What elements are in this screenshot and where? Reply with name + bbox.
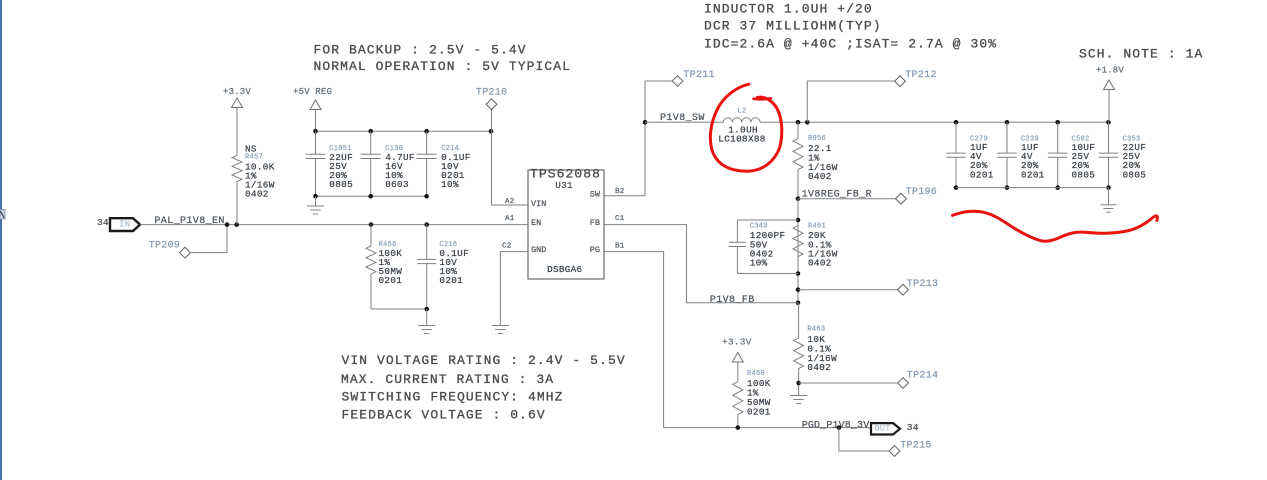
svg-text:INDUCTOR 1.0UH +/20: INDUCTOR 1.0UH +/20 — [704, 1, 873, 16]
svg-text:A2: A2 — [505, 198, 514, 206]
svg-text:B1: B1 — [615, 243, 625, 251]
svg-text:34: 34 — [97, 217, 109, 228]
svg-text:SW: SW — [590, 190, 601, 200]
svg-text:VIN: VIN — [531, 199, 546, 209]
svg-text:P1V8_FB: P1V8_FB — [710, 295, 755, 306]
svg-text:10%: 10% — [441, 179, 459, 190]
svg-text:TP196: TP196 — [906, 187, 938, 198]
svg-text:PG: PG — [590, 245, 600, 255]
svg-text:1V8REG_FB_R: 1V8REG_FB_R — [802, 189, 872, 200]
svg-text:TP209: TP209 — [149, 240, 181, 251]
svg-text:TP214: TP214 — [907, 370, 939, 381]
svg-text:0805: 0805 — [1123, 169, 1147, 180]
svg-text:GND: GND — [531, 245, 546, 255]
svg-text:B2: B2 — [615, 188, 624, 196]
svg-text:DSBGA6: DSBGA6 — [547, 264, 582, 275]
svg-text:SWITCHING FREQUENCY: 4MHZ: SWITCHING FREQUENCY: 4MHZ — [342, 389, 564, 404]
svg-text:0603: 0603 — [385, 179, 409, 190]
svg-text:C2: C2 — [502, 243, 511, 251]
svg-text:0805: 0805 — [329, 179, 353, 190]
svg-text:0402: 0402 — [245, 189, 269, 200]
svg-text:FOR BACKUP : 2.5V - 5.4V: FOR BACKUP : 2.5V - 5.4V — [314, 42, 527, 57]
svg-text:+3.3V: +3.3V — [722, 337, 752, 348]
svg-text:DCR 37 MILLIOHM(TYP): DCR 37 MILLIOHM(TYP) — [704, 18, 882, 33]
svg-text:U31: U31 — [555, 180, 573, 191]
svg-text:C1: C1 — [615, 215, 625, 223]
svg-text:0201: 0201 — [970, 169, 994, 180]
svg-text:0805: 0805 — [1072, 169, 1096, 180]
svg-text:0402: 0402 — [807, 362, 831, 373]
svg-text:+5V REG: +5V REG — [293, 87, 332, 97]
svg-text:PAL_P1V8_EN: PAL_P1V8_EN — [154, 216, 224, 227]
svg-text:34: 34 — [907, 422, 919, 433]
svg-text:A1: A1 — [505, 215, 515, 223]
svg-text:IDC=2.6A @ +40C ;ISAT= 2.7A @: IDC=2.6A @ +40C ;ISAT= 2.7A @ 30% — [704, 36, 997, 51]
svg-text:SCH. NOTE : 1A: SCH. NOTE : 1A — [1079, 46, 1203, 61]
svg-text:NORMAL OPERATION : 5V TYPICAL: NORMAL OPERATION : 5V TYPICAL — [314, 59, 572, 74]
svg-text:IN: IN — [119, 220, 130, 230]
svg-text:TP215: TP215 — [900, 441, 932, 452]
svg-text:TP213: TP213 — [907, 279, 939, 290]
svg-text:0201: 0201 — [1021, 169, 1045, 180]
svg-text:R457: R457 — [245, 153, 263, 161]
svg-text:0402: 0402 — [808, 258, 832, 269]
svg-text:C349: C349 — [750, 222, 768, 230]
svg-text:TP210: TP210 — [476, 87, 508, 98]
svg-text:0201: 0201 — [439, 275, 463, 286]
svg-text:0201: 0201 — [379, 275, 403, 286]
svg-text:10%: 10% — [750, 258, 768, 269]
svg-text:R956: R956 — [808, 135, 826, 143]
svg-text:EN: EN — [531, 218, 541, 228]
svg-text:+3.3V: +3.3V — [223, 87, 251, 97]
svg-text:LC108X88: LC108X88 — [718, 134, 765, 145]
svg-text:PGD_P1V8_3V: PGD_P1V8_3V — [802, 420, 870, 431]
svg-text:VIN VOLTAGE RATING : 2.4V - 5.: VIN VOLTAGE RATING : 2.4V - 5.5V — [342, 353, 626, 368]
svg-text:TP211: TP211 — [683, 70, 715, 81]
svg-text:R461: R461 — [808, 222, 826, 230]
svg-text:R463: R463 — [807, 325, 825, 333]
svg-text:FB: FB — [590, 218, 600, 228]
svg-text:FEEDBACK VOLTAGE : 0.6V: FEEDBACK VOLTAGE : 0.6V — [342, 408, 546, 423]
svg-text:R460: R460 — [747, 370, 765, 378]
svg-text:0201: 0201 — [747, 406, 771, 417]
svg-text:+1.8V: +1.8V — [1096, 66, 1124, 76]
svg-text:MAX. CURRENT RATING : 3A: MAX. CURRENT RATING : 3A — [341, 372, 554, 387]
svg-text:P1V8_SW: P1V8_SW — [660, 113, 705, 124]
svg-text:L2: L2 — [738, 107, 747, 115]
svg-text:OUT: OUT — [875, 424, 891, 434]
svg-text:TP212: TP212 — [905, 70, 937, 81]
svg-text:0402: 0402 — [808, 171, 832, 182]
